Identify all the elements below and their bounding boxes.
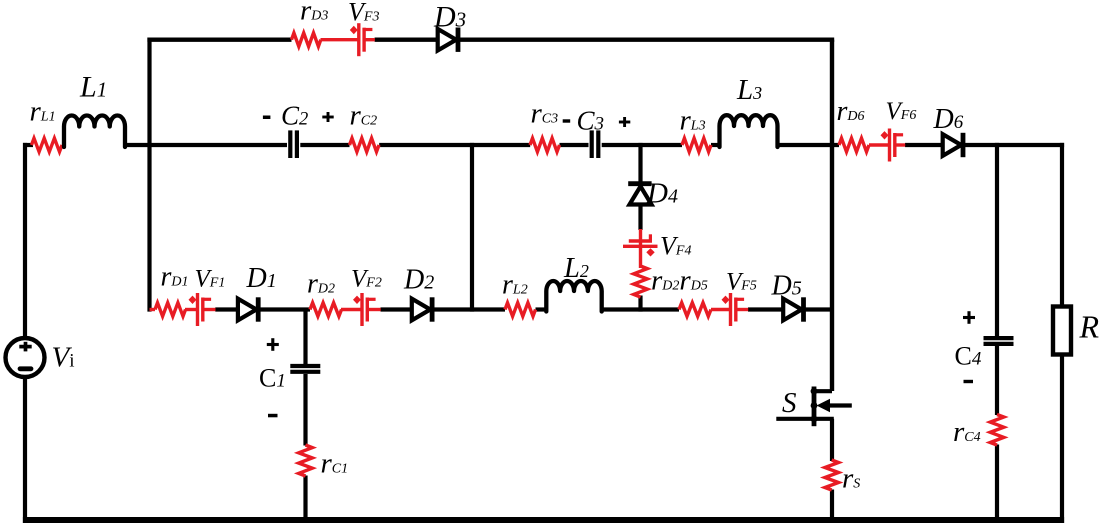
svg-text:S: S: [782, 387, 797, 419]
svg-text:R: R: [1079, 309, 1100, 345]
